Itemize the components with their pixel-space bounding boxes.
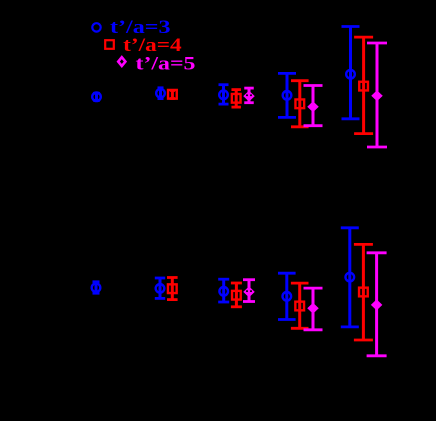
data marker top panel t=5 magenta (372, 91, 381, 100)
data marker top panel t=4 magenta (308, 102, 317, 111)
data marker bottom panel t=3 red (232, 291, 241, 300)
error bar bottom panel t=1 blue (93, 282, 100, 293)
data marker bottom panel t=2 blue (156, 284, 165, 293)
data marker bottom panel t=3 blue (219, 287, 228, 296)
error bar bottom panel t=4 red (291, 283, 309, 328)
error bar bottom panel t=2 blue (155, 278, 165, 298)
data marker bottom panel t=3 magenta (244, 288, 253, 297)
error bar bottom panel t=5 red (354, 244, 373, 340)
data marker bottom panel t=4 red (295, 302, 304, 311)
error bar bottom panel t=3 blue (218, 279, 229, 302)
error bar top panel t=3 magenta (244, 88, 254, 103)
error bar top panel t=4 blue (278, 73, 296, 117)
error bar top panel t=5 blue (342, 27, 360, 119)
data marker top panel t=2 red (168, 90, 177, 99)
error bar top panel t=4 red (291, 81, 309, 127)
data marker top panel t=1 blue (92, 93, 101, 102)
error bar top panel t=2 red (170, 91, 175, 99)
error bar top panel t=3 blue (219, 85, 229, 104)
data marker bottom panel t=4 blue (283, 292, 292, 301)
data marker bottom panel t=1 blue (92, 283, 101, 292)
data marker top panel t=3 red (232, 94, 241, 103)
data marker bottom panel t=5 blue (346, 273, 355, 282)
data marker top panel t=4 blue (283, 91, 292, 100)
data marker top panel t=5 red (359, 82, 368, 91)
error bar top panel t=1 blue (93, 93, 100, 100)
error bar bottom panel t=3 magenta (243, 280, 255, 302)
legend marker diamond t'/a=5 (118, 57, 125, 66)
error bar top panel t=4 magenta (304, 86, 323, 126)
error bar bottom panel t=5 blue (341, 228, 359, 327)
data marker top panel t=5 blue (346, 70, 355, 79)
data marker bottom panel t=4 magenta (308, 304, 317, 313)
data marker top panel t=3 blue (219, 91, 228, 100)
data marker bottom panel t=5 magenta (372, 301, 381, 310)
data marker top panel t=4 red (295, 99, 304, 108)
data marker bottom panel t=5 red (359, 288, 368, 297)
error bar top panel t=3 red (231, 90, 241, 108)
data marker top panel t=2 blue (156, 89, 165, 98)
data marker bottom panel t=2 red (168, 284, 177, 293)
error bar top panel t=5 red (354, 37, 373, 134)
legend marker square t'/a=4 (105, 40, 114, 49)
legend marker circle t'/a=3 (92, 23, 100, 31)
error bar bottom panel t=4 blue (278, 273, 296, 319)
error bar bottom panel t=2 red (167, 278, 178, 300)
data marker top panel t=3 magenta (244, 92, 253, 101)
error bar bottom panel t=4 magenta (304, 288, 323, 330)
svg-text:t’/a=5: t’/a=5 (136, 54, 196, 75)
error bar top panel t=5 magenta (367, 43, 387, 147)
error bar bottom panel t=3 red (231, 283, 242, 307)
error bar bottom panel t=5 magenta (367, 253, 387, 356)
error bar top panel t=2 blue (158, 88, 164, 99)
